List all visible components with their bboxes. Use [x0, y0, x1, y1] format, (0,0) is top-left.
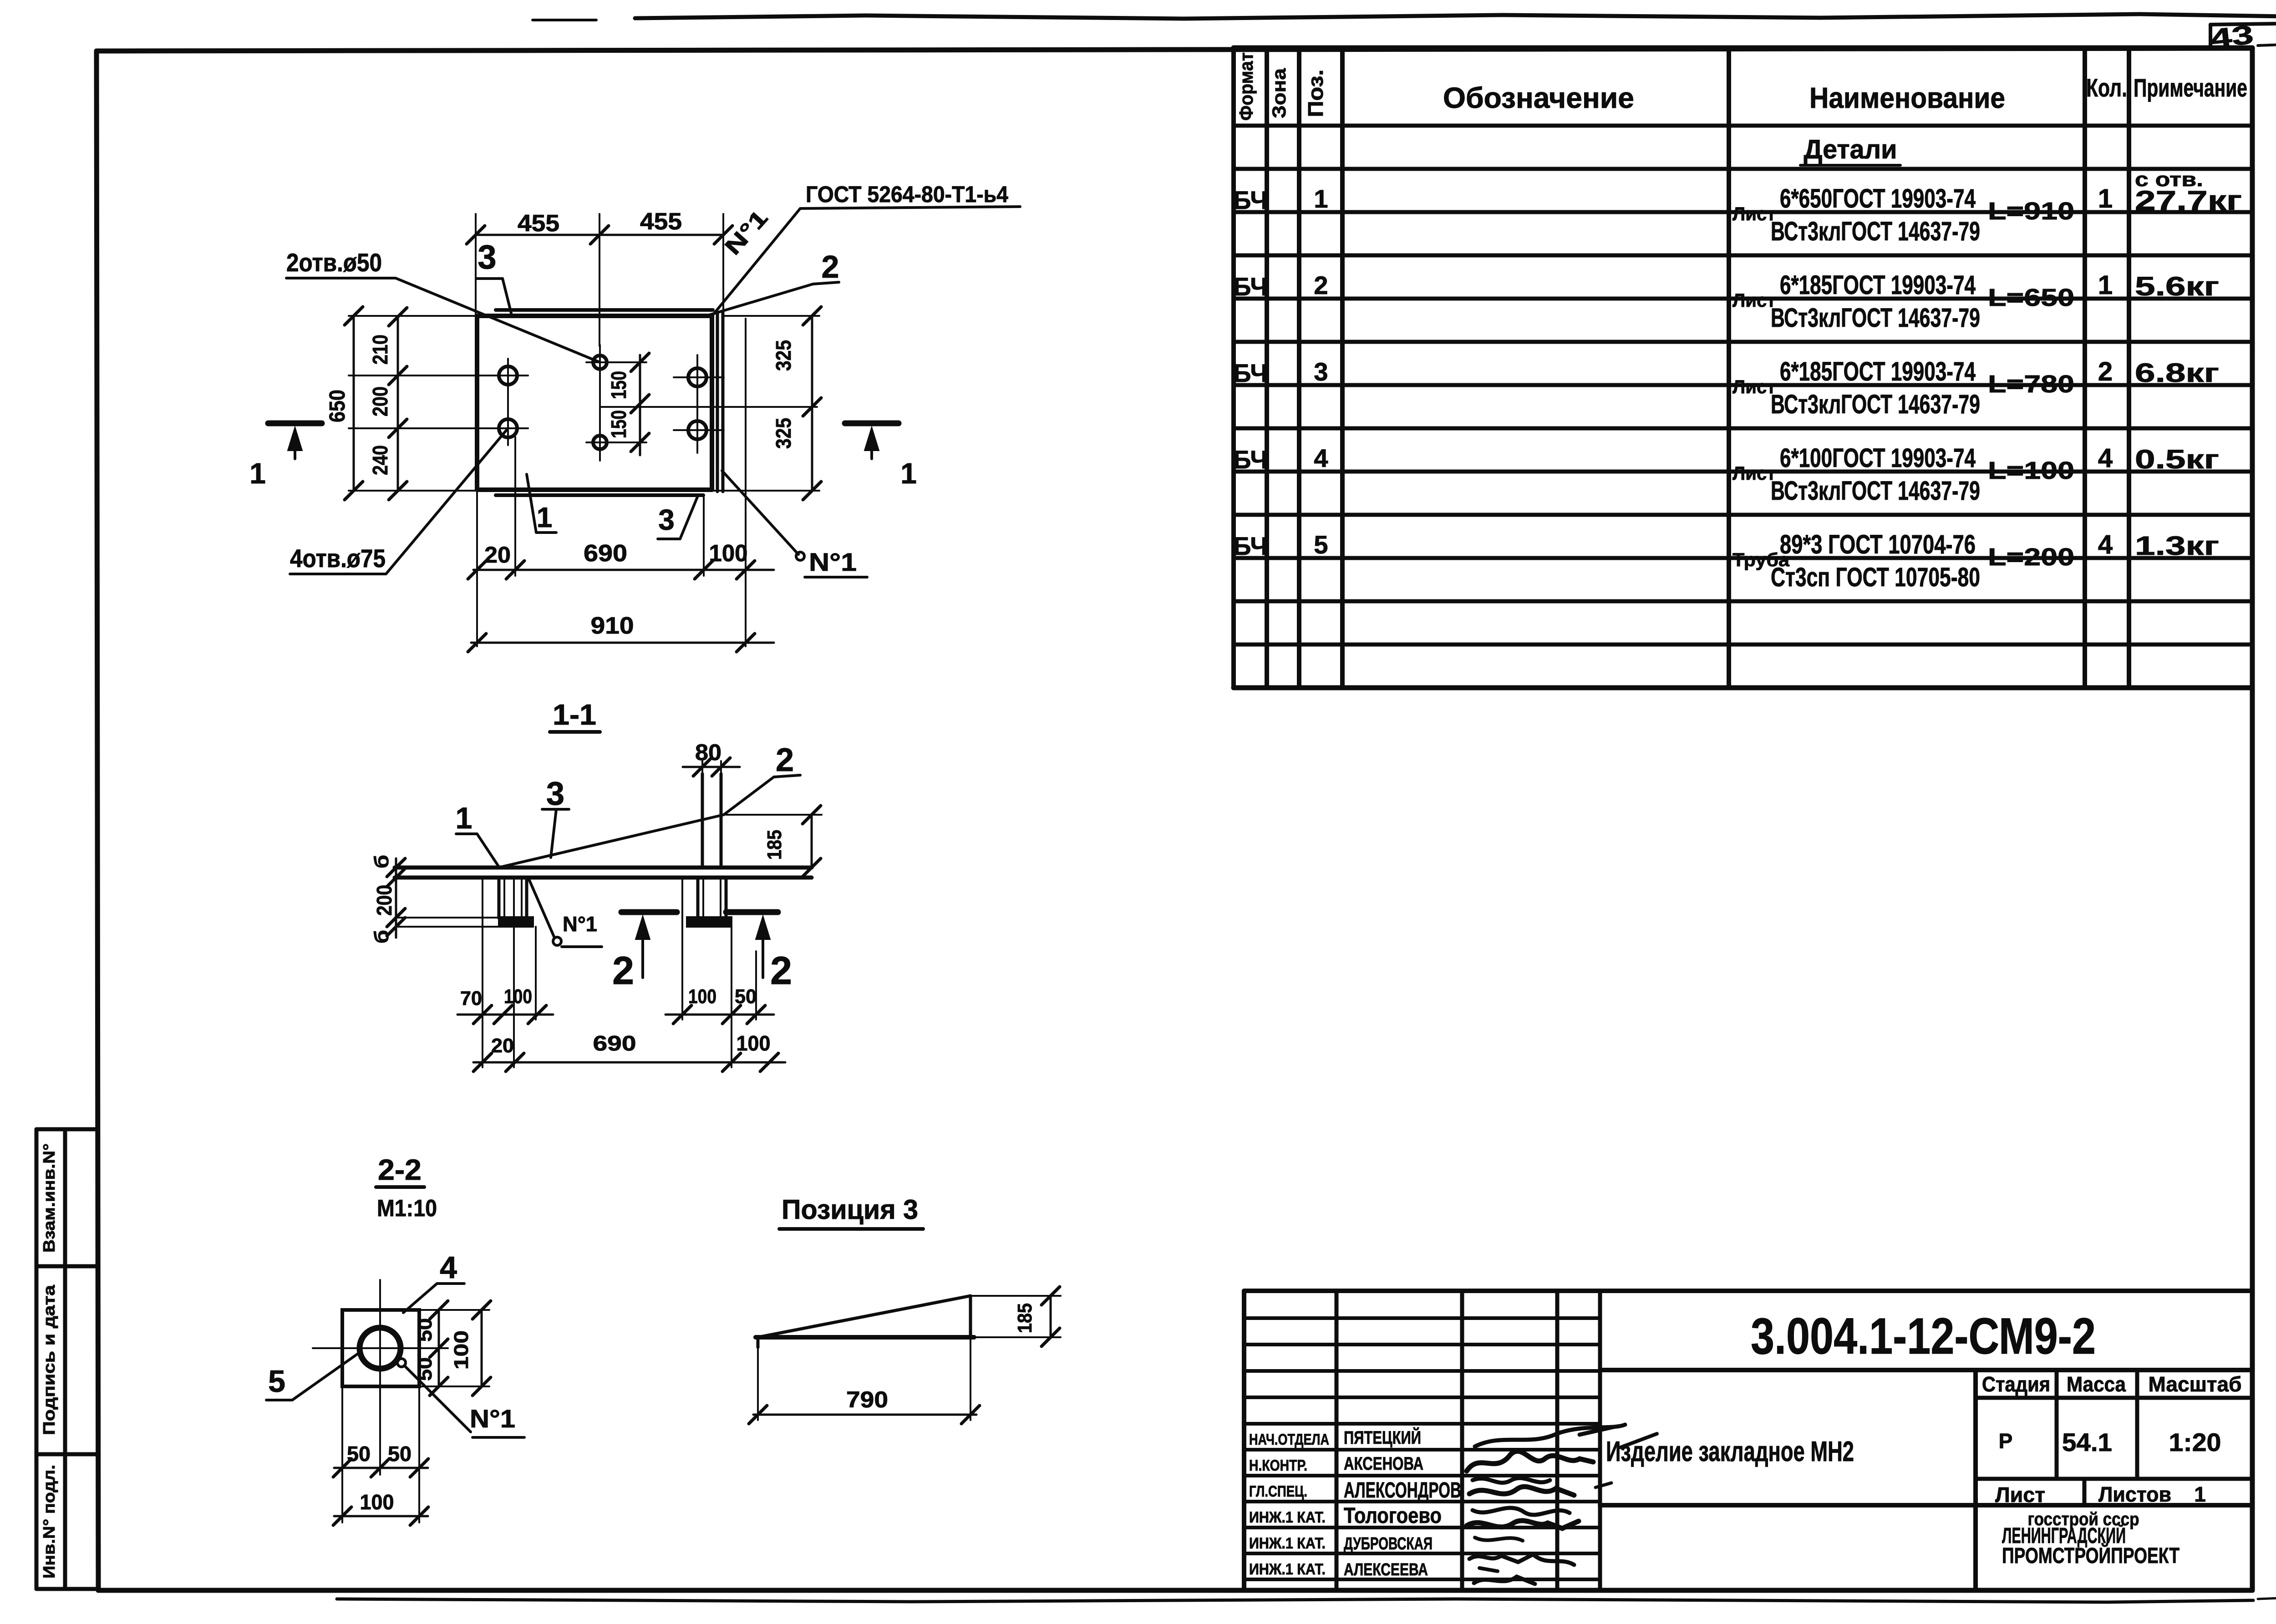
- svg-text:БЧ: БЧ: [1233, 359, 1268, 387]
- svg-text:1: 1: [2194, 1482, 2206, 1506]
- svg-text:Лист: Лист: [1732, 203, 1776, 224]
- svg-text:240: 240: [368, 445, 392, 475]
- svg-text:ГОСТ 5264-80-Т1-ь4: ГОСТ 5264-80-Т1-ь4: [806, 182, 1008, 207]
- svg-text:200: 200: [372, 885, 396, 916]
- svg-text:4: 4: [1314, 444, 1328, 472]
- svg-text:50: 50: [347, 1442, 371, 1466]
- svg-text:б: б: [371, 930, 393, 944]
- svg-text:Кол.: Кол.: [2086, 73, 2127, 102]
- svg-text:БЧ: БЧ: [1233, 272, 1268, 301]
- svg-text:50: 50: [735, 985, 757, 1008]
- svg-text:Инв.N° подл.: Инв.N° подл.: [40, 1465, 58, 1578]
- svg-text:100: 100: [737, 1031, 771, 1055]
- svg-text:6*650ГОСТ 19903-74: 6*650ГОСТ 19903-74: [1780, 184, 1976, 213]
- svg-text:4отв.ø75: 4отв.ø75: [290, 544, 386, 573]
- svg-text:4: 4: [440, 1250, 457, 1285]
- svg-text:АКСЕНОВА: АКСЕНОВА: [1344, 1454, 1423, 1474]
- svg-text:2отв.ø50: 2отв.ø50: [286, 248, 382, 277]
- svg-text:L=780: L=780: [1988, 370, 2074, 398]
- svg-text:3.004.1-12-СМ9-2: 3.004.1-12-СМ9-2: [1751, 1308, 2096, 1365]
- svg-text:ВСт3клГОСТ 14637-79: ВСт3клГОСТ 14637-79: [1771, 303, 1980, 333]
- svg-text:6*185ГОСТ 19903-74: 6*185ГОСТ 19903-74: [1780, 270, 1976, 300]
- svg-text:185: 185: [1014, 1303, 1036, 1333]
- svg-text:100: 100: [709, 540, 748, 567]
- svg-text:Листов: Листов: [2098, 1482, 2171, 1506]
- svg-text:0.5кг: 0.5кг: [2135, 445, 2219, 474]
- svg-text:54.1: 54.1: [2062, 1428, 2112, 1457]
- svg-text:50: 50: [414, 1318, 436, 1342]
- svg-text:2: 2: [770, 949, 792, 993]
- svg-text:3: 3: [546, 776, 564, 812]
- svg-text:325: 325: [772, 418, 795, 449]
- svg-text:ПЯТЕЦКИЙ: ПЯТЕЦКИЙ: [1344, 1427, 1421, 1448]
- svg-text:1: 1: [456, 801, 472, 835]
- svg-text:БЧ: БЧ: [1233, 445, 1268, 474]
- svg-text:650: 650: [325, 390, 350, 422]
- svg-text:Лист: Лист: [1732, 462, 1776, 484]
- svg-text:Лист: Лист: [1995, 1483, 2045, 1507]
- svg-text:100: 100: [688, 985, 716, 1008]
- svg-text:Взам.инв.N°: Взам.инв.N°: [40, 1143, 58, 1253]
- svg-text:Масштаб: Масштаб: [2149, 1372, 2242, 1396]
- svg-text:3: 3: [658, 503, 675, 536]
- svg-text:20: 20: [491, 1035, 514, 1057]
- svg-text:2: 2: [776, 742, 794, 778]
- svg-text:L=200: L=200: [1988, 543, 2074, 571]
- svg-text:Н.КОНТР.: Н.КОНТР.: [1249, 1457, 1307, 1474]
- svg-text:1: 1: [537, 502, 552, 533]
- svg-text:20: 20: [484, 542, 511, 568]
- svg-text:N°1: N°1: [563, 912, 597, 936]
- svg-text:Примечание: Примечание: [2134, 73, 2247, 102]
- svg-text:2-2: 2-2: [378, 1153, 422, 1186]
- svg-text:185: 185: [763, 830, 786, 860]
- svg-text:200: 200: [368, 386, 392, 416]
- svg-text:5.6кг: 5.6кг: [2135, 272, 2219, 301]
- svg-text:50: 50: [388, 1442, 412, 1466]
- svg-text:Ст3сп ГОСТ 10705-80: Ст3сп ГОСТ 10705-80: [1771, 563, 1980, 592]
- svg-text:89*3 ГОСТ 10704-76: 89*3 ГОСТ 10704-76: [1780, 530, 1976, 559]
- svg-text:Подпись и дата: Подпись и дата: [40, 1284, 58, 1435]
- svg-text:Наименование: Наименование: [1809, 81, 2005, 114]
- svg-text:6.8кг: 6.8кг: [2135, 358, 2219, 388]
- svg-text:АЛЕКСОНДРОВ: АЛЕКСОНДРОВ: [1344, 1478, 1461, 1502]
- svg-text:1-1: 1-1: [553, 698, 596, 731]
- svg-text:5: 5: [1314, 530, 1328, 559]
- svg-text:6*100ГОСТ 19903-74: 6*100ГОСТ 19903-74: [1780, 443, 1976, 473]
- svg-text:4: 4: [2098, 530, 2113, 559]
- svg-text:б: б: [371, 855, 393, 868]
- svg-text:НАЧ.ОТДЕЛА: НАЧ.ОТДЕЛА: [1249, 1431, 1329, 1448]
- svg-text:910: 910: [591, 613, 634, 639]
- svg-text:Р: Р: [1999, 1429, 2013, 1453]
- svg-text:790: 790: [846, 1387, 888, 1412]
- svg-text:325: 325: [772, 340, 795, 371]
- svg-text:150: 150: [607, 410, 630, 438]
- svg-text:L=650: L=650: [1988, 284, 2074, 311]
- svg-text:Детали: Детали: [1804, 135, 1897, 164]
- svg-text:АЛЕКСЕЕВА: АЛЕКСЕЕВА: [1344, 1560, 1428, 1579]
- svg-text:455: 455: [640, 208, 682, 235]
- svg-text:ИНЖ.1 КАТ.: ИНЖ.1 КАТ.: [1249, 1535, 1326, 1552]
- svg-text:БЧ: БЧ: [1233, 186, 1268, 214]
- svg-text:Стадия: Стадия: [1982, 1372, 2050, 1396]
- svg-text:ВСт3клГОСТ 14637-79: ВСт3клГОСТ 14637-79: [1771, 390, 1980, 419]
- svg-text:Лист: Лист: [1732, 289, 1776, 311]
- svg-text:ДУБРОВСКАЯ: ДУБРОВСКАЯ: [1344, 1534, 1433, 1553]
- svg-text:1: 1: [1314, 184, 1328, 213]
- svg-text:150: 150: [607, 371, 630, 399]
- svg-text:ПРОМСТРОЙПРОЕКТ: ПРОМСТРОЙПРОЕКТ: [2002, 1543, 2179, 1568]
- svg-text:1: 1: [2098, 270, 2113, 300]
- svg-text:L=910: L=910: [1988, 198, 2074, 225]
- svg-text:Обозначение: Обозначение: [1443, 81, 1634, 114]
- svg-text:Тологоево: Тологоево: [1344, 1504, 1442, 1528]
- svg-text:ГЛ.СПЕЦ.: ГЛ.СПЕЦ.: [1249, 1483, 1307, 1500]
- svg-text:3: 3: [1314, 357, 1328, 386]
- svg-text:1: 1: [900, 457, 917, 490]
- svg-text:Зона: Зона: [1268, 68, 1290, 118]
- svg-text:6*185ГОСТ 19903-74: 6*185ГОСТ 19903-74: [1780, 357, 1976, 386]
- svg-text:690: 690: [593, 1031, 636, 1055]
- svg-text:100: 100: [504, 985, 532, 1008]
- svg-text:2: 2: [822, 249, 839, 284]
- svg-text:ИНЖ.1 КАТ.: ИНЖ.1 КАТ.: [1249, 1509, 1326, 1526]
- svg-text:N°1: N°1: [809, 548, 857, 576]
- svg-text:3: 3: [478, 238, 496, 276]
- svg-text:Масса: Масса: [2067, 1372, 2126, 1396]
- svg-text:5: 5: [268, 1364, 285, 1399]
- svg-text:455: 455: [518, 210, 559, 237]
- svg-text:2: 2: [2098, 357, 2113, 386]
- svg-text:ИНЖ.1 КАТ.: ИНЖ.1 КАТ.: [1249, 1561, 1326, 1578]
- svg-text:N°1: N°1: [470, 1404, 515, 1433]
- svg-text:Формат: Формат: [1235, 52, 1257, 121]
- svg-text:ВСт3клГОСТ 14637-79: ВСт3клГОСТ 14637-79: [1771, 476, 1980, 506]
- svg-text:2: 2: [1314, 271, 1328, 299]
- svg-text:1.3кг: 1.3кг: [2135, 531, 2219, 561]
- svg-text:БЧ: БЧ: [1233, 532, 1268, 560]
- svg-text:80: 80: [695, 740, 721, 765]
- svg-text:Позиция 3: Позиция 3: [782, 1194, 918, 1225]
- svg-text:1: 1: [2098, 184, 2113, 213]
- svg-text:4: 4: [2098, 443, 2113, 473]
- svg-text:2: 2: [612, 949, 634, 993]
- svg-text:М1:10: М1:10: [377, 1195, 437, 1222]
- svg-text:210: 210: [368, 335, 392, 365]
- svg-text:100: 100: [450, 1330, 472, 1370]
- svg-text:100: 100: [360, 1490, 394, 1514]
- svg-text:Поз.: Поз.: [1304, 70, 1327, 117]
- svg-text:1: 1: [249, 457, 266, 490]
- svg-text:Лист: Лист: [1732, 376, 1776, 397]
- svg-text:ВСт3клГОСТ 14637-79: ВСт3клГОСТ 14637-79: [1771, 217, 1980, 246]
- svg-text:27.7кг: 27.7кг: [2135, 185, 2242, 216]
- svg-text:70: 70: [460, 987, 482, 1010]
- svg-text:1:20: 1:20: [2169, 1428, 2221, 1457]
- svg-text:690: 690: [584, 540, 627, 567]
- svg-text:L=100: L=100: [1988, 457, 2074, 484]
